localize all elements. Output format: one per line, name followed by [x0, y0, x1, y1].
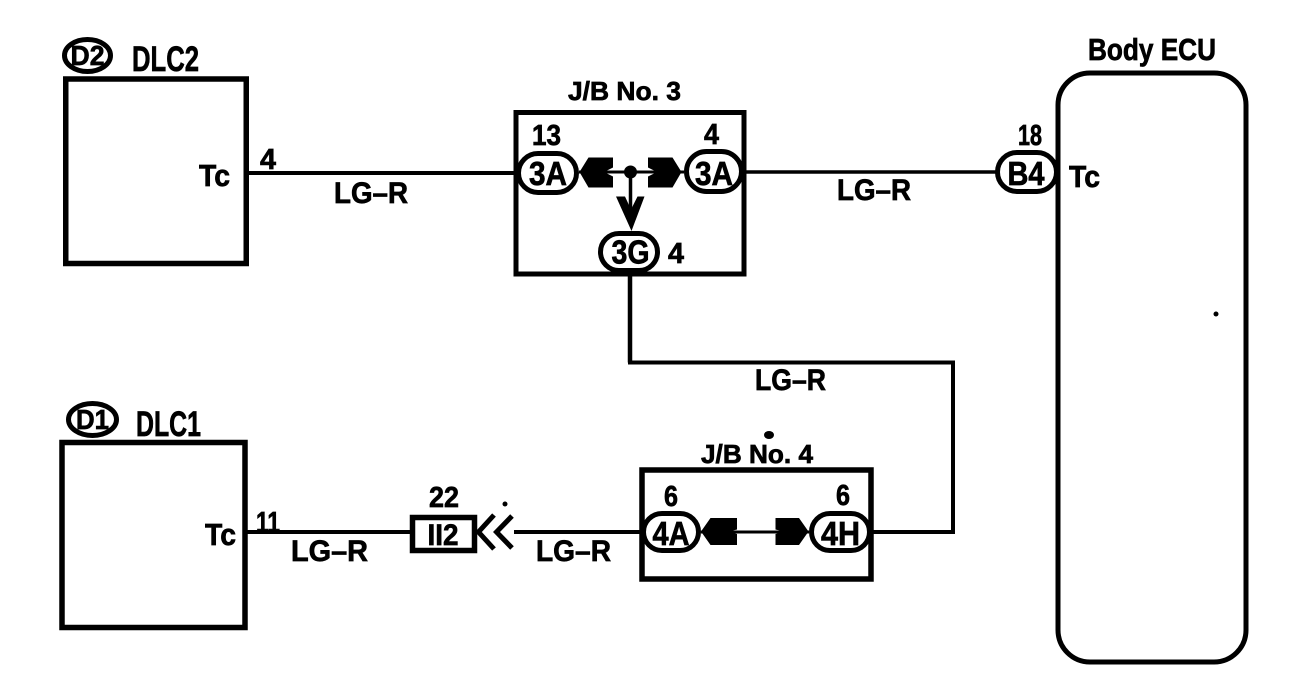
wire J/B No.3 right 3A to Body ECU B4: [744, 170, 998, 174]
svg-text:LG–R: LG–R: [536, 535, 611, 568]
svg-text:11: 11: [256, 507, 280, 539]
svg-text:3G: 3G: [612, 234, 650, 271]
wire DLC1 Tc to connector II2: [245, 530, 412, 534]
wire 3G down: [628, 271, 633, 363]
speck above chevrons: [503, 502, 508, 507]
junction dot: [624, 166, 637, 179]
svg-text:Tc: Tc: [205, 517, 236, 552]
connector 3A right oval: [687, 152, 742, 193]
svg-text:J/B No. 4: J/B No. 4: [701, 439, 814, 469]
wire horizontal run: [628, 361, 955, 365]
wire inside J/B No.4: [701, 531, 809, 534]
connector chevron 1: [479, 515, 495, 549]
arrow pointing down: [616, 197, 645, 232]
arrow pointing left (J/B No.4): [701, 518, 737, 545]
svg-text:B4: B4: [1008, 155, 1046, 192]
junction block J/B No. 4 box: [642, 470, 871, 579]
svg-text:II2: II2: [428, 519, 459, 552]
arrow pointing left: [580, 158, 614, 188]
connector label D2 oval: [65, 40, 111, 72]
svg-text:22: 22: [429, 482, 459, 514]
svg-text:Body ECU: Body ECU: [1088, 32, 1216, 67]
svg-text:LG–R: LG–R: [837, 174, 911, 207]
svg-text:4: 4: [704, 119, 719, 151]
svg-text:LG–R: LG–R: [291, 535, 368, 568]
wire chevrons to J/B No.4 4A: [514, 530, 645, 534]
arrow pointing right (J/B No.4): [776, 518, 809, 545]
svg-text:Tc: Tc: [1069, 159, 1100, 194]
speck inside Body ECU: [1214, 312, 1219, 317]
wire DLC2 Tc to J/B No.3 3A: [248, 171, 528, 175]
wire inside J/B No.3: [579, 171, 684, 174]
svg-text:D1: D1: [76, 404, 109, 435]
svg-text:3A: 3A: [529, 155, 567, 192]
connector II2 box: [413, 518, 475, 553]
svg-text:6: 6: [836, 480, 850, 512]
arrow pointing right: [648, 158, 682, 188]
svg-text:D2: D2: [71, 40, 105, 71]
svg-text:6: 6: [664, 481, 678, 513]
svg-text:Tc: Tc: [199, 158, 230, 193]
wire junction dot to down arrow: [629, 172, 633, 210]
component DLC2 box: [66, 79, 247, 264]
junction block J/B No. 3 box: [516, 113, 744, 275]
connector 3G oval: [601, 234, 658, 271]
connector 4A oval: [644, 514, 699, 553]
svg-text:18: 18: [1018, 120, 1042, 152]
svg-text:4: 4: [668, 238, 684, 270]
connector label D1 oval: [69, 404, 117, 436]
svg-text:4A: 4A: [653, 515, 690, 552]
component DLC1 box: [62, 443, 245, 628]
svg-text:13: 13: [532, 120, 561, 152]
svg-text:LG–R: LG–R: [334, 177, 408, 210]
svg-text:DLC2: DLC2: [132, 40, 199, 79]
svg-text:LG–R: LG–R: [755, 364, 826, 397]
svg-text:DLC1: DLC1: [136, 405, 201, 444]
connector 3A left oval: [519, 154, 577, 193]
wire vertical run to J/B No.4: [951, 361, 955, 535]
svg-text:3A: 3A: [695, 155, 733, 192]
connector B4 oval: [998, 153, 1057, 193]
svg-text:4H: 4H: [821, 515, 860, 552]
connector chevron 2: [497, 516, 513, 548]
speck above J/B No.4 label: [764, 431, 774, 439]
connector 4H oval: [812, 514, 870, 553]
component Body ECU box: [1058, 73, 1246, 662]
wire into 4H: [872, 530, 955, 534]
svg-text:J/B No. 3: J/B No. 3: [568, 76, 681, 106]
